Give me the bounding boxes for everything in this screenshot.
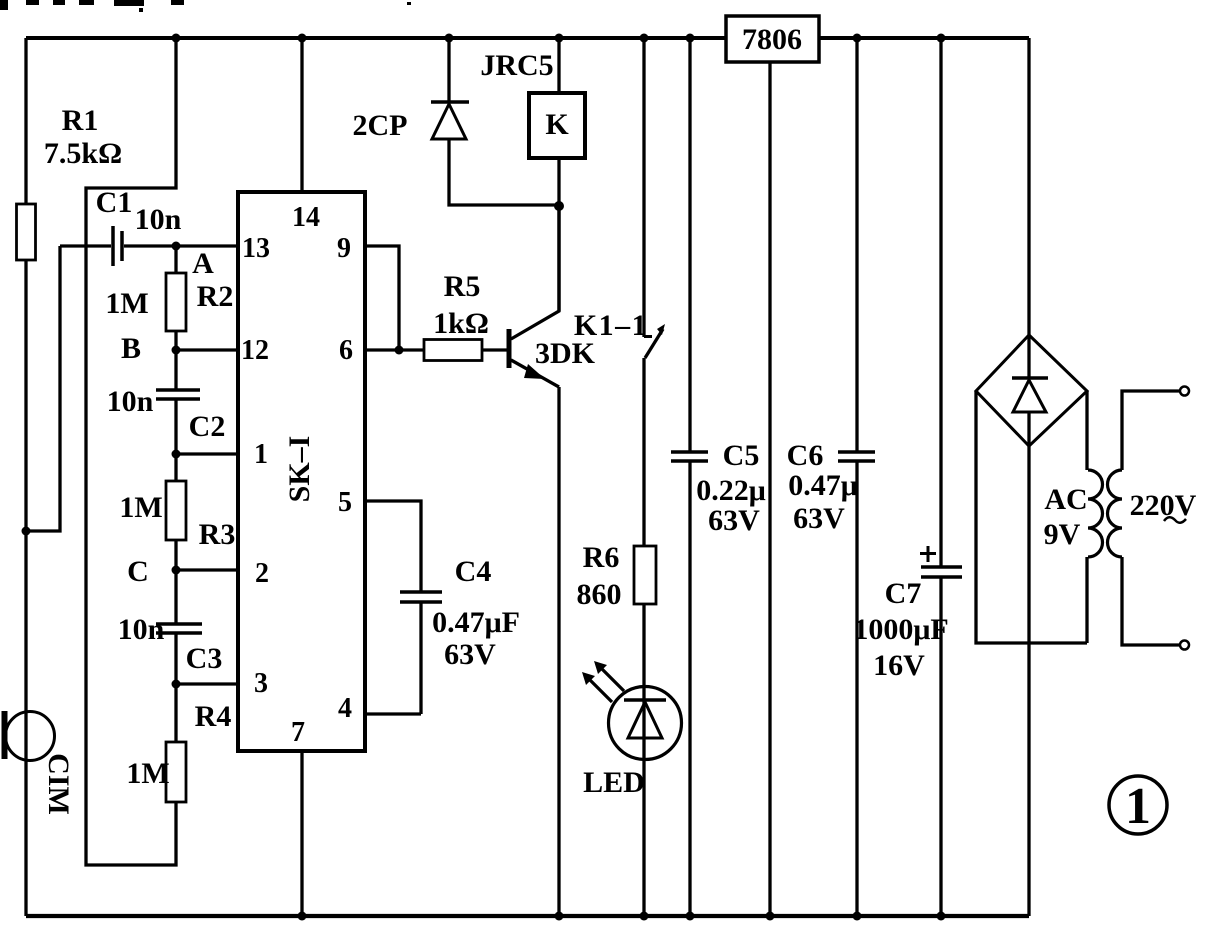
svg-text:A: A [192, 247, 214, 280]
svg-text:220V: 220V [1130, 489, 1197, 522]
resistor R4 [174, 684, 177, 742]
wire top rail left of 7806 [26, 36, 726, 40]
svg-text:C: C [127, 555, 149, 588]
svg-text:4: 4 [338, 693, 352, 724]
transistor emitter [511, 360, 559, 387]
svg-text:SK–I: SK–I [283, 436, 316, 503]
svg-text:13: 13 [242, 233, 270, 264]
svg-text:C6: C6 [787, 439, 824, 472]
capacitor C7 electrolytic [939, 38, 942, 567]
scan artifact marks top edge [0, 0, 411, 12]
transistor collector [511, 206, 559, 339]
svg-text:R5: R5 [444, 270, 481, 303]
terminal top 220V [1180, 387, 1189, 396]
svg-text:1M: 1M [119, 491, 162, 524]
wire pin 4 to C4 [365, 712, 421, 715]
svg-text:7: 7 [291, 717, 305, 748]
node A [172, 242, 181, 251]
wire C1 left drop to mic rail [26, 246, 60, 531]
svg-text:63V: 63V [708, 504, 760, 537]
wire R5 to base [482, 348, 507, 351]
svg-text:LED: LED [583, 766, 645, 799]
svg-text:7.5kΩ: 7.5kΩ [44, 137, 122, 170]
transformer T1 primary winding [1085, 557, 1088, 643]
wire pin 2 [176, 568, 238, 571]
figure number 1 circled [1109, 776, 1167, 834]
wire pin 14 to top rail [300, 38, 303, 192]
svg-text:K: K [545, 108, 569, 141]
tilde under 220V [1164, 517, 1186, 523]
bridge rectifier diamond [976, 335, 1087, 446]
capacitor C5 [688, 38, 691, 452]
svg-text:C3: C3 [186, 642, 223, 675]
resistor R5 [424, 340, 482, 361]
wire bridge left vertex loop to primary bottom [976, 391, 1087, 643]
svg-text:9V: 9V [1044, 518, 1081, 551]
svg-text:K1–1: K1–1 [574, 309, 648, 342]
svg-text:C2: C2 [189, 410, 226, 443]
resistor R1 [17, 204, 36, 260]
wire bottom rail [26, 914, 1029, 918]
svg-text:3: 3 [254, 668, 268, 699]
wire feedback from top rail down left side [86, 38, 176, 865]
svg-text:C5: C5 [723, 439, 760, 472]
switch K1-1 [642, 38, 645, 337]
capacitor C6 [855, 38, 858, 452]
svg-text:10n: 10n [135, 203, 182, 236]
svg-text:63V: 63V [793, 502, 845, 535]
svg-text:1: 1 [254, 439, 268, 470]
svg-text:860: 860 [577, 578, 622, 611]
wire pin 12 [176, 348, 238, 351]
diode 2CP [447, 38, 450, 103]
LED D1 [609, 687, 682, 760]
wire pin 6 to R5 [365, 348, 424, 351]
op-amp U1 SK-I IC body [238, 192, 365, 751]
wire top rail corner down to bridge [1027, 38, 1030, 335]
svg-text:1: 1 [1125, 778, 1151, 835]
svg-text:16V: 16V [873, 649, 925, 682]
capacitor C2 [174, 350, 177, 390]
svg-text:63V: 63V [444, 638, 496, 671]
svg-text:CIM: CIM [42, 753, 75, 815]
wire pin 5 to C4 [365, 501, 421, 592]
LED arrow 2 [600, 667, 624, 691]
wire left rail R1 to MIC to bottom rail [24, 260, 27, 916]
svg-text:10n: 10n [118, 613, 165, 646]
wire top rail right of 7806 to bridge corner [819, 36, 1029, 40]
svg-text:14: 14 [292, 202, 320, 233]
resistor R3 [174, 454, 177, 481]
bridge inner diode [1027, 336, 1030, 378]
svg-text:R6: R6 [583, 541, 620, 574]
wire bridge right vertex to primary top [1085, 391, 1088, 470]
svg-text:6: 6 [339, 335, 353, 366]
node pin3 junction [172, 680, 181, 689]
node pin1 junction [172, 450, 181, 459]
wire 7806 ground pin to bottom rail [768, 62, 771, 916]
svg-text:C7: C7 [885, 577, 922, 610]
svg-text:C1: C1 [96, 186, 133, 219]
wire pin 9 loop to pin 6 net [365, 246, 399, 350]
wire pin 7 to bottom rail [300, 751, 303, 916]
svg-text:0.22μ: 0.22μ [696, 474, 766, 507]
terminal bottom 220V [1180, 641, 1189, 650]
wire pin 3 [176, 682, 238, 685]
svg-text:AC: AC [1044, 483, 1087, 516]
wire secondary top to terminal [1122, 391, 1180, 470]
capacitor C1 [111, 226, 115, 266]
svg-text:9: 9 [337, 233, 351, 264]
svg-text:2CP: 2CP [353, 109, 408, 142]
regulator U2 7806 [726, 16, 819, 62]
wire bridge bottom to bottom rail corner [1027, 446, 1030, 916]
svg-text:1M: 1M [126, 757, 169, 790]
resistor R6 [634, 546, 656, 604]
svg-text:2: 2 [255, 558, 269, 589]
svg-text:JRC5: JRC5 [480, 49, 553, 82]
node collector junction [554, 201, 564, 211]
svg-text:1M: 1M [105, 287, 148, 320]
svg-text:0.47μ: 0.47μ [788, 469, 858, 502]
node C [172, 566, 181, 575]
transistor Q1 3DK base bar [507, 329, 512, 368]
wire secondary bottom to terminal [1122, 557, 1180, 645]
LED arrow 1 [588, 678, 612, 702]
microphone MIC [6, 712, 55, 761]
wire K box to collector node [557, 158, 560, 311]
resistor R2 [174, 246, 177, 273]
node B [172, 346, 181, 355]
svg-text:R2: R2 [197, 280, 234, 313]
wire left rail from top corner down to R1 [24, 38, 27, 204]
svg-text:R1: R1 [62, 104, 99, 137]
svg-text:B: B [121, 332, 141, 365]
transistor emitter arrow [524, 364, 545, 379]
relay K JRC5 [557, 38, 560, 93]
capacitor C3 [174, 570, 177, 624]
svg-text:R4: R4 [195, 700, 232, 733]
wire R6 to LED to bottom rail [642, 604, 645, 916]
svg-text:12: 12 [241, 335, 269, 366]
svg-text:7806: 7806 [742, 23, 802, 56]
node top rail junction at x=176 [172, 34, 181, 43]
wire C1 input from left drop [60, 244, 111, 247]
wire pin 1 [176, 452, 238, 455]
transformer T1 secondary winding [1108, 470, 1123, 557]
wire C1 to pin 13 [124, 244, 238, 247]
wire emitter to bottom rail [557, 387, 560, 916]
svg-text:10n: 10n [107, 385, 154, 418]
svg-text:R3: R3 [199, 518, 236, 551]
svg-text:C4: C4 [455, 555, 492, 588]
capacitor C4 [400, 590, 442, 594]
svg-text:5: 5 [338, 487, 352, 518]
svg-text:0.47μF: 0.47μF [432, 606, 520, 639]
svg-text:1000μF: 1000μF [853, 613, 948, 646]
svg-text:1kΩ: 1kΩ [433, 307, 489, 340]
node junction on left rail [22, 527, 31, 536]
